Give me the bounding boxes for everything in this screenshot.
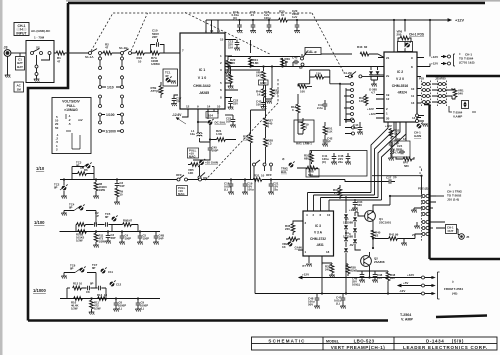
- svg-text:22u: 22u: [273, 188, 278, 192]
- resistor R6 top: [72, 168, 94, 175]
- connector J5 out: [457, 229, 470, 239]
- pot VR4 GND: [256, 67, 268, 86]
- svg-text:220: 220: [230, 61, 235, 65]
- switch contacts x5 off: [253, 160, 273, 180]
- svg-text:22u: 22u: [338, 160, 343, 164]
- resistor R10B: [76, 230, 86, 243]
- capacitor C17 below VC1: [171, 95, 181, 106]
- thick bus vertical and bottom: [430, 105, 500, 260]
- title block text: [268, 338, 488, 350]
- trimmer TC4: [69, 203, 85, 212]
- diode column right of IC3: [344, 196, 356, 258]
- svg-text:1/2W: 1/2W: [76, 239, 83, 243]
- trimmer TC1 box: [163, 69, 178, 86]
- svg-text:1/10: 1/10: [36, 166, 45, 171]
- stage B gnd left: [61, 211, 74, 216]
- svg-text:12K: 12K: [188, 171, 194, 175]
- main wire y=180: [125, 179, 345, 181]
- +12V rail left arrow: [299, 273, 370, 279]
- capacitor C48b below Q2: [372, 271, 382, 283]
- wire vertical feedback: [251, 40, 287, 180]
- resistor R48: [386, 271, 395, 294]
- resistor R7B: [151, 82, 163, 98]
- CAL box: [305, 48, 321, 55]
- svg-text:+5V: +5V: [403, 281, 408, 285]
- resistor R28: [243, 128, 252, 147]
- resistor R1: [56, 51, 65, 63]
- stage B trimmer branch wires: [70, 211, 96, 225]
- attenuator ladder column 1: [99, 55, 102, 133]
- svg-text:AC·(GND)·DC: AC·(GND)·DC: [31, 29, 51, 33]
- svg-text:(L): (L): [224, 188, 228, 192]
- svg-text:LEADER ELECTRONICS CORP.: LEADER ELECTRONICS CORP.: [403, 345, 488, 350]
- svg-text:1/100: 1/100: [106, 113, 115, 117]
- svg-text:8P: 8P: [90, 282, 94, 286]
- ground at P201: [411, 208, 422, 213]
- svg-text:1M: 1M: [17, 87, 22, 91]
- brace and CH-1 TO T-2564 label: [454, 52, 475, 66]
- pot VR2 GAIN: [282, 234, 302, 249]
- bottom rail +5V: [398, 281, 435, 287]
- capacitor C3: [115, 178, 125, 188]
- svg-text:10: 10: [397, 137, 401, 141]
- svg-text:8P: 8P: [92, 266, 96, 270]
- svg-text:1/1000: 1/1000: [33, 288, 46, 293]
- svg-text:V. AMP: V. AMP: [401, 317, 414, 321]
- svg-text:2x: 2x: [386, 74, 390, 78]
- wafer S1-2 contact column: [340, 83, 354, 127]
- svg-text:1/2W: 1/2W: [99, 188, 106, 192]
- svg-text:5P: 5P: [327, 140, 331, 144]
- svg-text:54P: 54P: [120, 184, 125, 188]
- svg-text:J25/P25: J25/P25: [435, 77, 446, 81]
- connector J25 dashed box left: [419, 77, 431, 107]
- resistor R35: [322, 263, 335, 278]
- svg-text:+12V: +12V: [302, 273, 309, 277]
- svg-text:1/2W9: 1/2W9: [151, 62, 160, 66]
- svg-text:-M285: -M285: [199, 91, 209, 95]
- svg-text:V 2 0: V 2 0: [396, 77, 404, 81]
- capacitor C14: [232, 10, 243, 33]
- +12V labels mid: [367, 107, 376, 116]
- tie 1/100: [102, 113, 121, 117]
- svg-text:/77: /77: [302, 264, 306, 268]
- switch S1-1A contacts: [85, 49, 102, 59]
- VC2 right pin stubs: [417, 58, 430, 118]
- svg-text:50V: 50V: [308, 303, 313, 307]
- Q1 base wire: [355, 212, 365, 216]
- capacitor C2 label: [95, 211, 99, 218]
- svg-text:7P: 7P: [176, 100, 180, 104]
- connector J3: [4, 46, 11, 57]
- svg-text:12: 12: [186, 105, 190, 109]
- wire IC3 pin18 to bottom rail: [322, 256, 346, 294]
- svg-text:47: 47: [129, 219, 133, 223]
- trimmer TC5: [105, 212, 118, 222]
- svg-text:1.3K: 1.3K: [243, 138, 250, 142]
- resistor R28: [264, 131, 274, 163]
- capacitor C43: [256, 100, 272, 110]
- capacitor C4: [119, 230, 131, 244]
- svg-text:100: 100: [300, 90, 305, 94]
- svg-text:21: 21: [386, 56, 390, 60]
- svg-text:C11: C11: [108, 270, 113, 274]
- svg-text:500: 500: [308, 173, 313, 177]
- capacitor C24 below VC2: [392, 122, 410, 157]
- title block table: [252, 337, 498, 350]
- svg-text:C12: C12: [116, 283, 122, 287]
- VC2 top pin wires: [394, 20, 405, 52]
- capacitor C6: [113, 297, 126, 311]
- left of IC3 resistor R36: [285, 221, 298, 235]
- capacitor C44 top: [353, 122, 363, 135]
- capacitor C47: [334, 294, 346, 309]
- svg-text:680: 680: [304, 157, 309, 161]
- svg-text:BAT: BAT: [17, 65, 23, 69]
- thick bus top right: [426, 75, 500, 77]
- svg-text:10: 10: [138, 59, 142, 63]
- svg-text:(L): (L): [336, 302, 340, 306]
- capacitor C5: [137, 230, 149, 244]
- svg-text:150P: 150P: [143, 237, 150, 241]
- tie 1/10: [102, 86, 121, 90]
- svg-text:15: 15: [220, 38, 224, 42]
- label 1/100: [34, 220, 45, 225]
- svg-text:+12V: +12V: [367, 107, 374, 111]
- wire +12V drop right: [429, 20, 431, 67]
- svg-text:LBO-523: LBO-523: [354, 338, 375, 343]
- svg-text:10: 10: [281, 13, 285, 17]
- svg-text:CHM-3732: CHM-3732: [310, 237, 326, 241]
- svg-text:(L): (L): [119, 307, 123, 311]
- switch S1-1B contacts: [119, 46, 132, 55]
- svg-text:P25: P25: [419, 77, 425, 81]
- svg-text:OUT: OUT: [448, 229, 454, 233]
- stage C upper branch: [67, 282, 106, 299]
- capacitor C10 bracket over R7A: [151, 29, 164, 54]
- svg-text:10: 10: [327, 213, 331, 217]
- svg-text:1 - 75M: 1 - 75M: [34, 36, 45, 40]
- coupling box C1/DL1: [16, 53, 25, 70]
- up-down arrow box: [462, 101, 469, 109]
- svg-text:+12V: +12V: [385, 124, 392, 128]
- resistor R24: [249, 57, 260, 69]
- svg-text:4.7: 4.7: [371, 91, 375, 95]
- capacitor C45: [208, 140, 219, 154]
- svg-text:240: 240: [325, 268, 330, 272]
- svg-text:J10 (1·6): J10 (1·6): [447, 198, 459, 202]
- svg-text:22kB: 22kB: [351, 269, 358, 273]
- resistor R44: [256, 85, 265, 100]
- resistor R7A: [151, 51, 160, 66]
- svg-text:P201(2): P201(2): [418, 187, 428, 191]
- svg-text:13: 13: [411, 101, 415, 105]
- svg-text:+12V: +12V: [455, 19, 464, 23]
- svg-text:(C): (C): [233, 16, 237, 20]
- capacitor C21: [268, 178, 278, 194]
- capacitor C19: [242, 178, 254, 194]
- svg-text:10: 10: [217, 105, 221, 109]
- trimmer CH-1 GAIN: [414, 122, 428, 138]
- svg-text:+12V: +12V: [431, 55, 438, 59]
- resistor R13: [97, 293, 108, 300]
- coil L1: [190, 126, 202, 142]
- svg-text:7P: 7P: [393, 176, 397, 180]
- svg-text:OFF: OFF: [266, 173, 272, 177]
- pot VR6: [397, 30, 413, 52]
- diode column D1-D3: [343, 212, 361, 250]
- bottom rail -12V: [398, 289, 435, 295]
- switch S1-2 contacts: [344, 71, 385, 78]
- svg-text:20: 20: [386, 117, 390, 121]
- resistor R34: [333, 185, 342, 199]
- resistor R25: [270, 67, 279, 100]
- svg-text:2SC1901: 2SC1901: [379, 220, 391, 224]
- svg-text:V 1 0: V 1 0: [198, 76, 206, 80]
- ground mid right: [401, 239, 407, 246]
- label 2V: [412, 233, 416, 237]
- resistor R10: [136, 51, 145, 63]
- trimmer DC BAL: [198, 119, 226, 126]
- op-amp U-VC2: [384, 52, 417, 122]
- svg-text:C27: C27: [386, 176, 392, 180]
- svg-text:LRM-1: LRM-1: [303, 142, 312, 146]
- resistor R23: [226, 67, 234, 89]
- x10 switch contact: [198, 165, 207, 181]
- svg-text:MODEL: MODEL: [326, 340, 340, 344]
- svg-text:1/100: 1/100: [34, 220, 45, 225]
- scan edge left gray strip: [0, 0, 3, 355]
- capacitor C9: [135, 297, 148, 311]
- FROM T-2564 label: [438, 272, 464, 299]
- svg-text:MAG: MAG: [178, 192, 185, 196]
- stage B rail: [60, 231, 161, 233]
- capacitor C18: [224, 178, 234, 194]
- stage C rail: [60, 298, 160, 300]
- ground near P201 bottom: [414, 222, 420, 229]
- label 1/10: [36, 166, 45, 171]
- svg-text:V 3 A: V 3 A: [314, 231, 323, 235]
- diodes D4 D5: [369, 66, 380, 95]
- pot VR5 x10 GAIN: [188, 159, 218, 175]
- J3 shield ground: [5, 56, 11, 78]
- svg-text:50P: 50P: [353, 126, 358, 130]
- svg-text:8P: 8P: [70, 267, 74, 271]
- svg-text:47: 47: [57, 59, 61, 63]
- svg-text:S1-1B: S1-1B: [119, 46, 128, 50]
- svg-text:14K: 14K: [359, 99, 364, 103]
- Q1 collector/emitter wires: [370, 205, 391, 271]
- label T-2564 V.AMP right: [449, 106, 476, 119]
- svg-text:R13: R13: [97, 293, 103, 297]
- svg-text:C40: C40: [292, 56, 298, 60]
- VC2 left pin stubs: [370, 58, 384, 119]
- svg-text:1/2W: 1/2W: [99, 240, 106, 244]
- resistor R41: [375, 233, 404, 241]
- +12V arrows to T-2564: [431, 55, 451, 59]
- wire to P201 pin 4: [372, 165, 422, 194]
- svg-text:104: 104: [208, 114, 213, 118]
- svg-text:GND: GND: [260, 81, 266, 85]
- svg-text:11: 11: [217, 29, 221, 33]
- svg-text:OFF: OFF: [176, 173, 182, 177]
- trimmer TC7: [92, 263, 113, 274]
- svg-text:1.5K: 1.5K: [216, 132, 223, 136]
- contacts right of R51: [345, 120, 355, 136]
- +12V arrow: [446, 19, 464, 23]
- svg-text:1/1000: 1/1000: [106, 130, 116, 134]
- label AC GND DC: [31, 29, 51, 40]
- VC1 top pin wires: [206, 20, 218, 33]
- bottom rail +12V: [370, 271, 435, 279]
- svg-text:15A: 15A: [228, 46, 233, 50]
- capacitor C20: [292, 9, 300, 33]
- capacitor C42: [322, 137, 332, 147]
- svg-text:2.2u: 2.2u: [317, 106, 323, 110]
- resistor R40 between Q1 Q2: [371, 230, 381, 239]
- svg-text:560: 560: [357, 203, 362, 207]
- svg-text:.5: .5: [68, 122, 71, 126]
- wires into P201: [390, 196, 436, 239]
- capacitor C15: [250, 10, 256, 33]
- svg-text:47: 47: [105, 46, 109, 50]
- svg-text:.01: .01: [250, 13, 254, 17]
- svg-text:1uV: 1uV: [292, 15, 297, 19]
- svg-text:99: 99: [395, 233, 399, 237]
- capacitor C23: [225, 115, 236, 128]
- svg-text:23V: 23V: [233, 102, 238, 106]
- svg-text:1/2W: 1/2W: [71, 307, 78, 311]
- box HA1 LRM-1: [294, 120, 314, 146]
- svg-text:25V: 25V: [377, 276, 382, 280]
- svg-text:-M31: -M31: [316, 243, 324, 247]
- resistor R22: [225, 57, 235, 75]
- svg-text:14: 14: [412, 116, 416, 120]
- svg-text:C8: C8: [86, 290, 90, 294]
- svg-text:-12V: -12V: [399, 289, 405, 293]
- svg-text:INPUT: INPUT: [16, 31, 27, 35]
- connector stub circles: [416, 114, 425, 123]
- capacitor C27 7P: [345, 176, 397, 184]
- svg-text:+12V: +12V: [431, 62, 438, 66]
- resistor R52: [304, 151, 313, 165]
- pot VR1: [452, 88, 464, 99]
- wire mid rail y=66.5: [225, 57, 384, 67]
- tie 1/1000: [102, 130, 121, 134]
- svg-text:10: 10: [79, 282, 83, 286]
- IC3 left pin stubs: [298, 221, 303, 250]
- capacitor C16: [264, 10, 272, 33]
- svg-text:10: 10: [261, 174, 265, 178]
- svg-text:×10MAG: ×10MAG: [64, 108, 78, 112]
- IC3 ground: [302, 264, 312, 268]
- resistor ladder S1-2 r1: [291, 94, 300, 122]
- svg-text:(45): (45): [452, 292, 457, 296]
- svg-text:940: 940: [390, 276, 395, 280]
- svg-text:8P: 8P: [76, 164, 80, 168]
- svg-text:8P: 8P: [54, 186, 58, 190]
- resistor R42: [359, 94, 368, 106]
- svg-text:12: 12: [386, 97, 390, 101]
- wire: [206, 19, 446, 21]
- bracket wires stage A: [72, 167, 94, 180]
- svg-text:D-1434 (5/9): D-1434 (5/9): [426, 338, 464, 343]
- svg-text:R41: R41: [389, 233, 395, 237]
- op-amp U-IC3: [303, 211, 334, 256]
- wire CAL to VC2: [321, 54, 384, 58]
- node at frame: [67, 52, 69, 54]
- svg-text:CAL ⌀: CAL ⌀: [307, 50, 317, 54]
- +12V column right: [385, 124, 400, 161]
- wire down to bottom box: [255, 180, 398, 294]
- svg-text:22: 22: [375, 234, 379, 238]
- capacitor C13 at VC1 pin15: [228, 40, 240, 51]
- resistor 100: [298, 84, 312, 94]
- capacitor C41b: [317, 100, 327, 110]
- svg-text:CHM-3516: CHM-3516: [392, 84, 409, 88]
- P201 connector dashed: [418, 187, 430, 243]
- resistor R27: [264, 110, 274, 131]
- svg-text:S1-2B: S1-2B: [344, 71, 352, 75]
- resistor R43: [357, 45, 369, 56]
- svg-text:1LK: 1LK: [327, 130, 333, 134]
- svg-text:J3: J3: [4, 46, 8, 50]
- svg-text:100P: 100P: [212, 149, 219, 153]
- wires below VC1: [182, 109, 218, 160]
- trimmer C12: [109, 280, 122, 287]
- svg-text:HA1: HA1: [296, 142, 302, 146]
- VC1 right pin stubs: [225, 40, 260, 98]
- resistor R29: [281, 57, 291, 68]
- svg-text:10: 10: [411, 87, 415, 91]
- wire J3 to S2: [11, 52, 26, 54]
- svg-text:-M324: -M324: [397, 91, 407, 95]
- svg-text:22P: 22P: [152, 35, 157, 39]
- dashed switch linkage S1: [91, 13, 344, 74]
- svg-text:5P: 5P: [299, 66, 303, 70]
- capacitor C22: [228, 97, 239, 110]
- svg-text:ATT(4): ATT(4): [151, 89, 160, 93]
- svg-text:R6: R6: [84, 168, 88, 172]
- trimmer TC3: [76, 161, 92, 170]
- svg-text:+12V: +12V: [369, 112, 376, 116]
- svg-text:+12V: +12V: [407, 273, 414, 277]
- boxed label PULL x10 MAG: [188, 148, 199, 159]
- transistor Q1: [365, 211, 392, 225]
- svg-text:10: 10: [104, 293, 108, 297]
- transistor Q2: [361, 256, 385, 267]
- svg-text:2SA868: 2SA868: [374, 260, 385, 264]
- svg-text:50: 50: [55, 126, 59, 130]
- svg-text:GAIN: GAIN: [295, 246, 302, 250]
- svg-text:1/10: 1/10: [107, 86, 114, 90]
- svg-text:FROM T-2564: FROM T-2564: [444, 287, 463, 291]
- CH-1 INPUT box: [14, 23, 29, 36]
- resistor R9: [114, 188, 123, 205]
- svg-text:100: 100: [256, 103, 261, 107]
- svg-text:1.3: 1.3: [268, 142, 272, 146]
- svg-text:1P: 1P: [96, 214, 100, 218]
- label 1/1000: [33, 288, 46, 293]
- svg-text:(C701 1&2): (C701 1&2): [459, 61, 475, 65]
- svg-text:4P: 4P: [165, 74, 169, 78]
- trimmer TRIG BAL: [281, 157, 295, 174]
- svg-text:R43: R43: [357, 45, 363, 49]
- resistor 150 loop: [298, 70, 340, 84]
- boxed label x5: [206, 109, 218, 118]
- trimmer TC2: [54, 180, 68, 199]
- svg-text:18: 18: [326, 250, 330, 254]
